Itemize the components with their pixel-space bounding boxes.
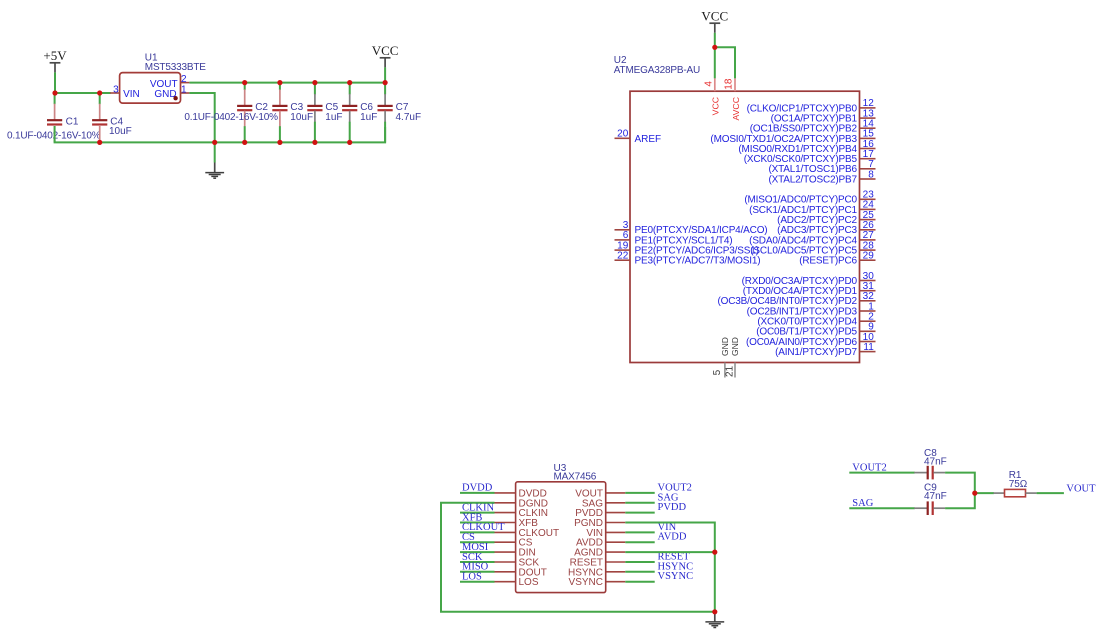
wire CS to U3 <box>460 541 495 543</box>
U3 pin VOUT (right) <box>575 488 625 499</box>
node junction C6 bottom <box>347 140 352 145</box>
node junction C6 top <box>347 80 352 85</box>
svg-text:MAX7456: MAX7456 <box>554 472 597 483</box>
resistor R1 75ohm <box>993 470 1036 497</box>
U3 pin VIN (right) <box>586 528 625 539</box>
net label SCK <box>462 552 483 563</box>
net label MOSI <box>462 542 489 553</box>
U2 pin 7 PB6 <box>768 159 875 175</box>
wire VOUT2 to C8 <box>849 472 914 474</box>
capacitor C6 <box>342 83 377 143</box>
U2 pin 17 PB5 <box>744 149 876 165</box>
node junction +5V/C1 <box>52 90 57 95</box>
wire PGND to ground rail <box>625 523 715 612</box>
U2 pin 9 PD5 <box>756 322 875 338</box>
U3 pin SAG (right) <box>582 498 625 509</box>
wire AGND to ground rail <box>625 551 715 553</box>
U1 pin 1 GND <box>181 84 190 95</box>
wire U3 VIN stub <box>625 531 654 533</box>
U2 pin 16 PB4 <box>738 139 875 155</box>
U1 pin 3 VIN <box>110 84 119 95</box>
wire +5V to VIN <box>55 92 111 94</box>
mcu U2 ATMEGA328PB-AU <box>614 55 860 363</box>
svg-text:LOS: LOS <box>519 577 539 588</box>
wire XFB to U3 <box>460 522 495 524</box>
node junction C2 bottom <box>242 140 247 145</box>
wire bottom rail <box>55 126 386 142</box>
net label VOUT2 <box>852 462 886 473</box>
U2 pin 4 VCC <box>704 78 721 115</box>
wire U3 RESET stub <box>625 561 654 563</box>
U3 pin XFB (left) <box>495 518 539 529</box>
U2 pin 15 PB3 <box>710 129 875 145</box>
wire DVDD to U3 <box>460 492 495 494</box>
node junction C5 bottom <box>312 140 317 145</box>
svg-text:AREF: AREF <box>635 134 662 145</box>
capacitor C3 <box>272 83 313 143</box>
svg-text:VCC: VCC <box>372 43 399 58</box>
wire LOS to U3 <box>460 581 495 583</box>
net label MISO <box>462 562 489 573</box>
U3 pin LOS (left) <box>495 577 539 588</box>
svg-text:8: 8 <box>868 169 874 180</box>
net label SAG <box>852 498 873 509</box>
svg-text:VIN: VIN <box>123 89 140 100</box>
U2 pin 3 PE0 <box>615 220 768 236</box>
capacitor C4 <box>92 93 132 142</box>
wire DGND loop <box>441 503 715 612</box>
wire SCK to U3 <box>460 561 495 563</box>
U3 pin CLKIN (left) <box>495 508 548 519</box>
svg-text:20: 20 <box>617 129 629 140</box>
node junction GND/bottom rail <box>212 140 217 145</box>
U2 pin 32 PD2 <box>717 291 875 307</box>
U2 pin 28 PC5 <box>750 240 875 256</box>
U2 pin 19 PE2 <box>615 240 759 256</box>
net label VOUT2 <box>658 482 692 493</box>
wire SAG to C9 <box>849 507 914 509</box>
net label AVDD <box>658 532 687 543</box>
U2 pin 8 PB7 <box>768 169 875 185</box>
svg-text:(AIN1/PTCXY)PD7: (AIN1/PTCXY)PD7 <box>775 347 857 358</box>
wire U3 SAG stub <box>625 502 654 504</box>
wire U3 HSYNC stub <box>625 571 654 573</box>
net label SAG <box>658 492 679 503</box>
wire U3 AVDD stub <box>625 541 654 543</box>
U3 pin AGND (right) <box>574 548 625 559</box>
U3 pin RESET (right) <box>570 558 626 569</box>
U2 pin 12 PB0 <box>747 98 876 114</box>
node junction C4/bottom rail <box>97 140 102 145</box>
svg-text:(XTAL2/TOSC2)PB7: (XTAL2/TOSC2)PB7 <box>768 174 857 185</box>
svg-text:VOUT: VOUT <box>1066 484 1096 495</box>
U3 pin PVDD (right) <box>575 508 625 519</box>
svg-text:75Ω: 75Ω <box>1009 479 1028 490</box>
svg-text:AVDD: AVDD <box>658 532 687 543</box>
U2 pin 2 PD4 <box>757 312 875 328</box>
wire VCC top rail <box>189 82 385 84</box>
svg-text:22: 22 <box>617 251 629 262</box>
svg-text:47nF: 47nF <box>924 456 947 467</box>
node junction AGND <box>712 550 717 555</box>
U3 pin DGND (left) <box>495 498 548 509</box>
svg-text:11: 11 <box>863 342 874 353</box>
node junction C2 top <box>242 80 247 85</box>
U3 pin DIN (left) <box>495 548 536 559</box>
power flag VCC (MCU) <box>701 9 728 48</box>
node junction C3 bottom <box>277 140 282 145</box>
node junction C7 top <box>383 80 388 85</box>
wire R1 to VOUT <box>1037 492 1064 494</box>
wire U1 GND to ground <box>189 93 214 163</box>
osd chip U3 MAX7456 <box>516 463 606 592</box>
wire U3 PVDD stub <box>625 512 654 514</box>
U3 pin SCK (left) <box>495 558 540 569</box>
svg-text:VCC: VCC <box>701 9 728 24</box>
node junction C8/C9/R1 <box>972 491 977 496</box>
wire CLKOUT to U3 <box>460 531 495 533</box>
U1 pin 2 VOUT <box>181 74 190 85</box>
svg-text:1uF: 1uF <box>325 112 342 123</box>
net label CLKIN <box>462 502 494 513</box>
U2 pin 18 AVCC <box>724 78 742 120</box>
svg-text:10uF: 10uF <box>290 112 313 123</box>
svg-text:GND: GND <box>720 337 730 356</box>
U2 pin 26 PC3 <box>777 220 875 236</box>
value label C1 0.1UF-0402-16V-10% <box>7 131 101 142</box>
net label CS <box>462 532 475 543</box>
U2 pin 6 PE1 <box>615 230 733 246</box>
U3 pin AVDD (right) <box>576 538 625 549</box>
svg-text:18: 18 <box>724 78 735 90</box>
U2 pin 31 PD1 <box>743 281 876 297</box>
svg-text:0.1UF-0402-16V-10%: 0.1UF-0402-16V-10% <box>184 112 278 123</box>
svg-text:PVDD: PVDD <box>658 502 687 513</box>
net label LOS <box>462 572 482 583</box>
wire MOSI to U3 <box>460 551 495 553</box>
wire VCC to pin 4 <box>714 47 716 78</box>
svg-text:2: 2 <box>181 74 187 85</box>
U2 pin 20 AREF <box>615 129 662 145</box>
svg-text:MST5333BTE: MST5333BTE <box>145 62 207 73</box>
node junction C3 top <box>277 80 282 85</box>
U3 pin HSYNC (right) <box>568 567 625 578</box>
svg-text:4.7uF: 4.7uF <box>396 112 422 123</box>
U2 pin 13 PB1 <box>771 108 876 124</box>
svg-text:3: 3 <box>113 84 119 95</box>
ground (regulator) <box>205 163 224 179</box>
svg-text:+5V: +5V <box>43 48 67 63</box>
wire C8 to junction <box>945 473 975 494</box>
svg-text:1uF: 1uF <box>360 112 377 123</box>
svg-text:GND: GND <box>730 337 740 356</box>
node junction C4/VIN <box>97 90 102 95</box>
node junction C5 top <box>312 80 317 85</box>
U3 pin CS (left) <box>495 538 533 549</box>
U2 pin 23 PC0 <box>744 190 875 206</box>
node junction VCC branch <box>712 45 717 50</box>
svg-text:(RESET)PC6: (RESET)PC6 <box>799 256 857 267</box>
net label RESET <box>658 552 691 563</box>
U2 pin 30 PD0 <box>742 271 876 287</box>
U2 pin 11 PD7 <box>775 342 875 358</box>
svg-text:5: 5 <box>712 369 723 375</box>
capacitor C8 47nF <box>914 448 947 480</box>
svg-text:C1: C1 <box>66 116 79 127</box>
wire C9 to junction <box>945 493 975 508</box>
U2 pin 14 PB2 <box>750 119 876 135</box>
regulator U1 MST5333BTE <box>120 53 207 104</box>
net label XFB <box>462 512 482 523</box>
svg-text:LOS: LOS <box>462 572 482 583</box>
U2 pin 22 PE3 <box>615 251 761 267</box>
U3 pin CLKOUT (left) <box>495 528 560 539</box>
power flag VCC (regulator output) <box>372 43 399 82</box>
wire VCC branch to pin 18 <box>715 47 735 78</box>
U2 pin 5 GND <box>712 337 730 377</box>
svg-text:PE3(PTCY/ADC7/T3/MOSI1): PE3(PTCY/ADC7/T3/MOSI1) <box>635 256 761 267</box>
net label VOUT <box>1066 484 1096 495</box>
U2 pin 24 PC1 <box>749 200 875 216</box>
U3 pin DVDD (left) <box>495 488 547 499</box>
ground (U3) <box>705 612 724 628</box>
value label C2 0.1UF-0402-16V-10% <box>184 112 278 123</box>
svg-text:AVCC: AVCC <box>731 97 741 121</box>
wire MISO to U3 <box>460 571 495 573</box>
U3 pin DOUT (left) <box>495 567 547 578</box>
svg-text:47nF: 47nF <box>924 491 947 502</box>
svg-text:ATMEGA328PB-AU: ATMEGA328PB-AU <box>614 65 700 76</box>
capacitor C7 <box>378 83 422 143</box>
U2 pin 1 PD3 <box>747 301 876 317</box>
svg-text:DVDD: DVDD <box>462 483 493 494</box>
svg-text:21: 21 <box>725 365 736 377</box>
net label HSYNC <box>658 561 694 572</box>
capacitor C9 47nF <box>914 483 947 515</box>
power flag +5V <box>43 48 67 93</box>
svg-text:1: 1 <box>181 84 187 95</box>
svg-text:10uF: 10uF <box>109 126 132 137</box>
svg-text:4: 4 <box>704 81 715 87</box>
net label DVDD <box>462 483 493 494</box>
svg-text:GND: GND <box>154 89 176 100</box>
svg-text:VSYNC: VSYNC <box>569 577 603 588</box>
svg-text:VCC: VCC <box>711 97 721 115</box>
svg-text:29: 29 <box>863 251 875 262</box>
net label VIN <box>658 522 677 533</box>
U2 pin 27 PC4 <box>749 230 875 246</box>
net label PVDD <box>658 502 687 513</box>
capacitor C5 <box>307 83 342 143</box>
node junction ground rail <box>712 609 717 614</box>
wire CLKIN to U3 <box>460 512 495 514</box>
svg-text:VSYNC: VSYNC <box>658 571 694 582</box>
wire U3 VSYNC stub <box>625 581 654 583</box>
U2 pin 29 PC6 <box>799 251 875 267</box>
U2 pin 25 PC2 <box>777 210 875 226</box>
U3 pin PGND (right) <box>574 518 625 529</box>
net label VSYNC <box>658 571 694 582</box>
net label CLKOUT <box>462 522 505 533</box>
U2 pin 21 GND <box>725 337 740 377</box>
wire U3 VOUT2 stub <box>625 492 654 494</box>
U2 pin 10 PD6 <box>746 332 875 348</box>
wire junction to R1 <box>975 492 994 494</box>
capacitor C2 <box>237 83 268 143</box>
capacitor C1 <box>47 93 79 142</box>
U3 pin VSYNC (right) <box>569 577 626 588</box>
